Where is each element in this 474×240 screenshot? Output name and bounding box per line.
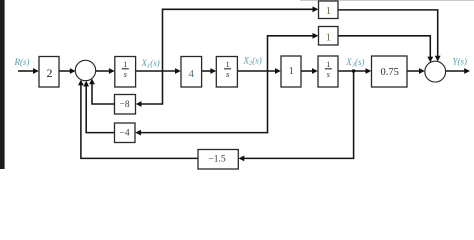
wire node X1 down to -8 xyxy=(141,71,163,104)
svg-text:1: 1 xyxy=(326,5,332,17)
block gain 2 xyxy=(39,57,59,88)
block gain 0.75 xyxy=(372,56,408,87)
arrowhead into integrator1 xyxy=(109,68,115,74)
wire node X2 down to -4 xyxy=(141,71,268,133)
svg-text:0.75: 0.75 xyxy=(381,67,399,78)
arrowhead into block 2 xyxy=(33,68,39,74)
block gain 1 xyxy=(281,56,301,87)
wire integrator1 to gain4 (node X1) xyxy=(136,70,177,72)
block gain 4 xyxy=(181,57,202,88)
wire top block1b to sum2 top xyxy=(338,36,430,58)
wire -8 back to sum1 xyxy=(92,84,115,105)
arrowhead into top block 1b xyxy=(313,33,319,39)
block feedback -1.5 xyxy=(198,150,238,170)
svg-text:R(s): R(s) xyxy=(14,57,30,67)
arrowhead -1.5 up into sum1 xyxy=(78,80,84,86)
wire R(s) input xyxy=(18,70,34,72)
svg-text:1: 1 xyxy=(326,59,330,69)
node X3 junction dot xyxy=(352,69,356,73)
arrowhead into gain4 xyxy=(175,68,181,74)
faint top edge line xyxy=(300,0,474,1)
svg-text:1: 1 xyxy=(289,65,295,77)
arrowhead into gain1 xyxy=(275,68,281,74)
integrator 1/s fraction #2 xyxy=(224,59,231,79)
arrowhead into sum1 xyxy=(70,68,76,74)
arrowhead into integrator2 xyxy=(210,68,216,74)
wire gain4 to integrator2 xyxy=(202,70,212,72)
arrowhead output Y(s) xyxy=(464,68,470,74)
wire integrator3 to gain 0.75 (node X3) xyxy=(338,70,367,72)
wire -1.5 back to sum1 xyxy=(81,85,198,159)
block feedback -8 xyxy=(115,95,136,115)
wire -4 back to sum1 xyxy=(86,86,114,133)
wire sum1 to integrator1 xyxy=(96,70,110,72)
svg-text:X2(s): X2(s) xyxy=(243,56,262,68)
svg-text:X1(s): X1(s) xyxy=(141,58,160,70)
summing junction sum1 xyxy=(75,60,95,80)
block integrator 1/s #3 xyxy=(318,56,338,87)
arrowhead rail2 down into sum2 xyxy=(427,57,433,63)
block feedback -4 xyxy=(115,123,136,143)
wire gain0.75 to sum2 xyxy=(407,70,420,72)
svg-text:−8: −8 xyxy=(120,100,130,110)
arrowhead into integrator3 xyxy=(312,68,318,74)
svg-text:2: 2 xyxy=(47,66,53,80)
arrowhead into -8 xyxy=(136,101,142,107)
integrator 1/s fraction #1 xyxy=(122,59,129,79)
wire integrator2 to gain1 (node X2) xyxy=(237,70,276,72)
svg-text:−1.5: −1.5 xyxy=(208,155,225,165)
wire node X3 down to -1.5 xyxy=(244,71,354,158)
arrowhead into sum2 xyxy=(419,68,425,74)
integrator 1/s fraction #3 xyxy=(325,59,332,79)
svg-text:X3(s): X3(s) xyxy=(345,57,364,69)
svg-text:1: 1 xyxy=(326,32,332,44)
svg-text:1: 1 xyxy=(225,59,229,69)
block integrator 1/s #2 xyxy=(216,57,237,88)
svg-text:Y(s): Y(s) xyxy=(453,57,468,67)
arrowhead into -4 xyxy=(135,130,141,136)
arrowhead into -1.5 xyxy=(239,156,245,162)
page edge black strip xyxy=(0,0,5,169)
summing junction sum2 xyxy=(425,61,446,82)
svg-text:4: 4 xyxy=(189,68,195,80)
arrowhead into top block 1a xyxy=(313,6,319,12)
arrowhead rail1 down into sum2 xyxy=(435,56,441,62)
arrowhead -8 up into sum1 xyxy=(89,79,95,85)
svg-text:1: 1 xyxy=(123,59,127,69)
wire node X2 up xyxy=(268,36,314,71)
block integrator 1/s #1 xyxy=(115,57,136,88)
wire block2 to sum1 xyxy=(59,70,71,72)
wire node X1 up xyxy=(163,9,314,71)
wire sum2 to output Y(s) xyxy=(446,70,465,72)
wire gain1 to integrator3 xyxy=(301,70,313,72)
svg-text:−4: −4 xyxy=(120,129,130,139)
arrowhead into gain 0.75 xyxy=(366,68,372,74)
block top gain 1a xyxy=(319,1,339,19)
arrowhead -4 up into sum1 xyxy=(83,81,89,87)
wire top block1a to sum2 top xyxy=(338,10,438,57)
block top gain 1b xyxy=(319,27,339,46)
